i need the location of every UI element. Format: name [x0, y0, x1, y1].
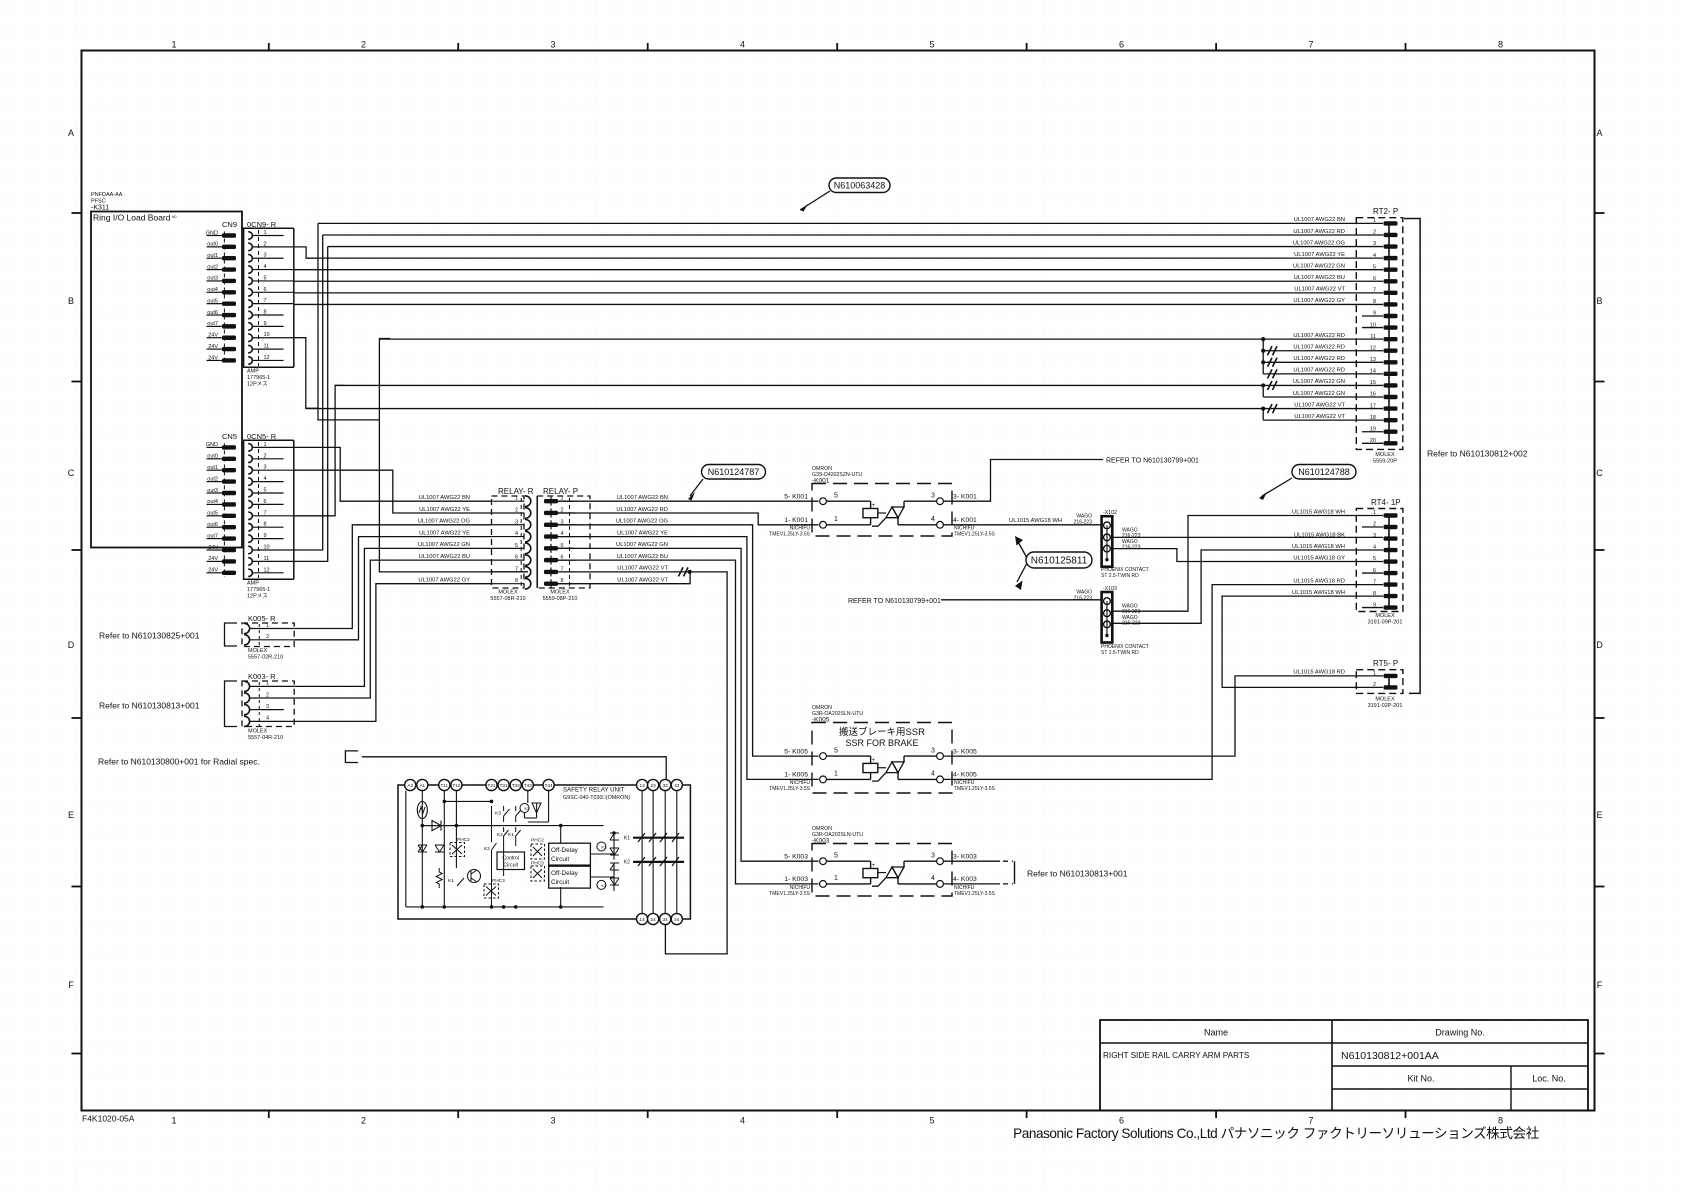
- K003-R pin 4 stub: [250, 720, 295, 722]
- CN9 pin 9 lead: [207, 325, 223, 327]
- svg-text:REFER TO N610130799+001: REFER TO N610130799+001: [1106, 458, 1199, 465]
- safety relay T11 column: [443, 791, 445, 907]
- svg-text:UL1015 AWG18 RD: UL1015 AWG18 RD: [1293, 578, 1345, 584]
- svg-text:TMEV1.25LY-3.5S: TMEV1.25LY-3.5S: [954, 786, 996, 792]
- safety relay off-delay circuit box 1: [549, 843, 591, 865]
- RT4-1P pin 4 male contact: [1384, 548, 1398, 552]
- svg-text:33: 33: [663, 783, 669, 788]
- svg-text:T44: T44: [545, 783, 553, 788]
- wire RT4-1P pin8 to RT5-P pin2: [1222, 596, 1383, 687]
- svg-text:2: 2: [361, 40, 366, 50]
- connector K005-R dashed box: [242, 623, 294, 647]
- CN9 pin 6 male contact: [222, 290, 236, 294]
- svg-text:34: 34: [663, 917, 669, 922]
- svg-text:Off-Delay: Off-Delay: [551, 847, 579, 854]
- RT2-P pin 20 stub: [1362, 442, 1383, 444]
- svg-text:RT4- 1P: RT4- 1P: [1371, 498, 1401, 507]
- svg-text:TMEV1.25LY-3.5S: TMEV1.25LY-3.5S: [769, 891, 811, 897]
- svg-text:Name: Name: [1204, 1028, 1228, 1038]
- RT4-1P pin 7 male contact: [1384, 582, 1398, 586]
- safety relay terminal T12: [451, 779, 462, 790]
- svg-text:6: 6: [1119, 1116, 1124, 1126]
- svg-text:5: 5: [929, 40, 934, 50]
- RT2-P pin 2 male contact: [1384, 233, 1398, 237]
- board K311 Ring I/O Load Board box: [91, 212, 242, 548]
- RT2-P pin 7 male contact: [1384, 291, 1398, 295]
- svg-text:Off-Delay: Off-Delay: [551, 870, 579, 877]
- svg-text:PHC2: PHC2: [531, 838, 544, 844]
- svg-text:B: B: [1596, 296, 1602, 306]
- svg-text:UL1007 AWG22 BN: UL1007 AWG22 BN: [419, 495, 470, 501]
- CN9 pin 4 lead: [207, 269, 223, 271]
- CN9 pin 1 lead: [207, 235, 223, 237]
- safety relay opto PHC2b box: [531, 844, 545, 859]
- svg-text:8: 8: [1498, 40, 1503, 50]
- svg-text:T11: T11: [441, 783, 449, 788]
- svg-text:2: 2: [266, 692, 269, 698]
- wire refer note to WAGO X103 pin1: [941, 599, 1102, 601]
- wire RELAY-P pin1 to K001 pin5: [558, 500, 819, 502]
- 0CN9-R pin 11 stub: [252, 348, 283, 350]
- svg-text:Refer to N610130812+002: Refer to N610130812+002: [1427, 449, 1528, 459]
- wire RELAY-P pin2 to K001 pin1: [558, 513, 819, 525]
- svg-text:RELAY- P: RELAY- P: [543, 487, 578, 496]
- column tick bottom 5: [1026, 1111, 1028, 1119]
- svg-text:AMP: AMP: [247, 581, 259, 587]
- K003-R pin 1 stub: [250, 685, 295, 687]
- svg-text:UL1007 AWG22 RD: UL1007 AWG22 RD: [1293, 229, 1345, 235]
- callout N610125811 arrow down: [1017, 563, 1027, 582]
- svg-text:UL1007 AWG22 RD: UL1007 AWG22 RD: [616, 507, 668, 513]
- svg-text:TMEV1.25LY-3.5S: TMEV1.25LY-3.5S: [769, 532, 811, 538]
- RT2-P pin 20 male contact: [1384, 441, 1398, 445]
- svg-text:Refer to N610130813+001: Refer to N610130813+001: [1027, 869, 1128, 879]
- svg-text:4: 4: [931, 771, 935, 778]
- svg-text:UL1007 AWG22 RD: UL1007 AWG22 RD: [1293, 368, 1345, 374]
- safety relay opto PHC3b box: [531, 866, 545, 881]
- row tick left 5: [72, 886, 82, 888]
- wire riser 0CN5-R pin7 to RT2-P pin15 line: [294, 385, 345, 515]
- CN9 pin 5 lead: [207, 280, 223, 282]
- CN9 pin 8 lead: [207, 314, 223, 316]
- column tick bottom 6: [1215, 1111, 1217, 1119]
- svg-text:UL1007 AWG22 OG: UL1007 AWG22 OG: [1293, 240, 1346, 246]
- svg-text:177965-1: 177965-1: [247, 375, 270, 381]
- svg-text:1: 1: [834, 875, 838, 882]
- CN5 pin 1 lead: [207, 446, 223, 448]
- svg-text:UL1007 AWG22 OG: UL1007 AWG22 OG: [616, 519, 669, 525]
- CN5 pin 6 male contact: [222, 502, 236, 506]
- svg-text:5: 5: [834, 853, 838, 860]
- wire RELAY-P pin4 to K005 pin1: [558, 537, 819, 780]
- CN9 pin 10 lead: [207, 337, 223, 339]
- RT2-P pin 17 male contact: [1384, 406, 1398, 410]
- K003-R pin 2 female contact: [244, 693, 250, 703]
- 0CN9-R pin 11 female contact: [248, 345, 252, 353]
- RELAY-P pin 8 male contact: [544, 582, 558, 586]
- svg-text:5557-04R-210: 5557-04R-210: [248, 735, 283, 741]
- wire RELAY-R pin4 to K005-R pin2: [294, 537, 491, 640]
- RELAY-P pin 1 male contact: [544, 499, 558, 503]
- 0CN5-R pin 6 stub: [252, 503, 283, 505]
- 0CN5-R pin 2 female contact: [248, 455, 252, 463]
- connector RELAY-R mating dashed line: [520, 498, 522, 586]
- svg-text:Circuit: Circuit: [503, 863, 518, 869]
- CN9 pin 3 lead: [207, 257, 223, 259]
- RT4-1P pin 2 male contact: [1384, 525, 1398, 529]
- svg-text:5557-02R-210: 5557-02R-210: [248, 655, 283, 661]
- 0CN5-R pin 3 female contact: [248, 466, 252, 474]
- CN5 pin 1 male contact: [222, 445, 236, 449]
- 0CN9-R pin 8 female contact: [248, 311, 252, 319]
- wire to RT2-P pin 16 (UL1007 AWG22 GN): [1263, 396, 1383, 398]
- 0CN9-R pin 4 female contact: [248, 266, 252, 274]
- safety relay bottom rail dots: [421, 905, 425, 909]
- RELAY-P pin 5 wire stub: [558, 547, 575, 549]
- svg-text:UL1007 AWG22 RD: UL1007 AWG22 RD: [1293, 333, 1345, 339]
- connector K003-R mating dashed line: [258, 682, 260, 726]
- SSR K001 terminal 4: [937, 521, 944, 528]
- K003-R pin 1 female contact: [244, 681, 250, 691]
- safety relay contact column 33: [664, 791, 666, 914]
- RELAY-R pin 4 female contact: [525, 531, 531, 542]
- svg-text:5- K001: 5- K001: [784, 493, 808, 500]
- svg-text:1: 1: [834, 516, 838, 523]
- RELAY-R pin 1 female contact: [525, 496, 531, 507]
- RT4-1P pin 8 male contact: [1384, 594, 1398, 598]
- svg-text:1: 1: [171, 40, 176, 50]
- wire K001 pin3 to refer note: [943, 460, 1103, 502]
- svg-text:4: 4: [515, 531, 518, 537]
- K005-R pin2 stub: [250, 639, 295, 641]
- RT2-P pin 1 male contact: [1384, 221, 1398, 225]
- svg-text:Refer to N610130813+001: Refer to N610130813+001: [99, 701, 200, 711]
- safety relay off-delay circuit box 2: [549, 866, 591, 888]
- RT4-1P pin 3 male contact: [1384, 536, 1398, 540]
- CN5 pin 10 male contact: [222, 548, 236, 552]
- safety relay K1 feed: [590, 853, 614, 855]
- svg-text:搬送ブレーキ用SSR: 搬送ブレーキ用SSR: [839, 726, 925, 738]
- svg-text:5: 5: [834, 747, 838, 754]
- svg-text:RELAY- R: RELAY- R: [498, 487, 534, 496]
- safety relay TVS pair 2: [435, 845, 444, 852]
- 0CN5-R pin 1 female contact: [248, 444, 252, 452]
- wire WAGO X103 pin2 to RT4-1P pin1: [1112, 516, 1383, 612]
- RELAY-P pin 2 wire stub: [558, 512, 575, 514]
- svg-text:5559-08P-210: 5559-08P-210: [543, 596, 578, 602]
- RT2-P pin 9 stub: [1362, 315, 1383, 317]
- 0CN9-R pin 12 stub: [252, 359, 283, 361]
- junction bus GN pins 15-16: [1262, 385, 1264, 397]
- svg-text:TMEV1.25LY-3.5S: TMEV1.25LY-3.5S: [769, 786, 811, 792]
- svg-text:K005- R: K005- R: [248, 614, 276, 623]
- CN9 pin 2 male contact: [222, 245, 236, 249]
- crossover slash pin15: [1268, 381, 1278, 390]
- RELAY-P pin 8 wire stub: [558, 583, 575, 585]
- RELAY-P pin 7 wire stub: [558, 571, 575, 573]
- svg-text:Kit No.: Kit No.: [1407, 1074, 1434, 1084]
- SSR K005 terminal 4: [937, 776, 944, 783]
- K003-R pin 4 female contact: [244, 716, 250, 726]
- title block drawing-number row line: [1332, 1065, 1588, 1067]
- SSR K001 terminal 5: [820, 498, 827, 505]
- svg-text:A: A: [1596, 128, 1602, 138]
- 0CN9-R pin 3 stub: [252, 257, 283, 259]
- safety relay terminal T44: [543, 779, 554, 790]
- svg-text:5- K003: 5- K003: [784, 853, 808, 860]
- CN5 pin 2 lead: [207, 458, 223, 460]
- junction dot pin12: [1261, 349, 1265, 353]
- RELAY-R pin 6 female contact: [525, 555, 531, 566]
- svg-text:5: 5: [515, 543, 518, 549]
- wire 0CN5-R pin1 to RELAY-R pin1: [294, 447, 492, 501]
- svg-text:UL1007 AWG22 VT: UL1007 AWG22 VT: [617, 578, 668, 584]
- svg-text:3- K003: 3- K003: [953, 853, 977, 860]
- svg-text:MOLEX: MOLEX: [550, 590, 570, 596]
- safety relay diode pair K1: [610, 833, 619, 855]
- svg-text:2: 2: [515, 507, 518, 513]
- column tick bottom 4: [836, 1111, 838, 1119]
- wire RELAY-P pin5 to K003 pin5: [558, 548, 819, 861]
- svg-text:CN5: CN5: [222, 432, 237, 441]
- wire RELAY-R pin3 to K005-R pin1: [294, 525, 491, 629]
- column tick top 7: [1405, 43, 1407, 51]
- svg-text:1- K001: 1- K001: [784, 517, 808, 524]
- svg-text:MOLEX: MOLEX: [248, 729, 268, 735]
- svg-text:UL1007 AWG22 VT: UL1007 AWG22 VT: [1294, 402, 1345, 408]
- CN5 pin 2 male contact: [222, 457, 236, 461]
- title block vertical divider: [1331, 1020, 1333, 1111]
- svg-text:UL1007 AWG22 OG: UL1007 AWG22 OG: [418, 519, 471, 525]
- svg-text:TMEV1.25LY-3.5S: TMEV1.25LY-3.5S: [954, 532, 996, 538]
- CN5 pin 7 male contact: [222, 514, 236, 518]
- svg-text:E: E: [1596, 810, 1602, 820]
- 0CN9-R pin 10 stub: [252, 337, 293, 339]
- CN5 pin 7 lead: [207, 515, 223, 517]
- svg-text:K1: K1: [508, 832, 514, 838]
- safety relay opto PHC2 box: [450, 843, 465, 857]
- svg-text:-K311: -K311: [91, 205, 109, 212]
- connector RELAY-P mating dashed line: [569, 498, 571, 586]
- column tick top 3: [647, 43, 649, 51]
- 0CN5-R pin 8 female contact: [248, 523, 252, 531]
- svg-text:K3: K3: [525, 806, 531, 811]
- safety relay control circuit box: [497, 852, 525, 870]
- wire riser line1 to bus joint: [318, 223, 379, 420]
- RELAY-R pin 1 wire stub: [492, 500, 525, 502]
- RELAY-R pin 3 wire stub: [492, 524, 525, 526]
- CN5 pin 3 male contact: [222, 468, 236, 472]
- wire RELAY-R pin6 to K003-R pin2: [294, 560, 491, 698]
- svg-text:T33: T33: [512, 783, 520, 788]
- svg-text:MOLEX: MOLEX: [1375, 697, 1395, 703]
- wire WAGO X102 pin3 to RT4-1P pin5: [1112, 549, 1383, 562]
- 0CN5-R pin 11 stub: [252, 560, 293, 562]
- svg-text:UL1007 AWG22 BU: UL1007 AWG22 BU: [617, 554, 668, 560]
- svg-text:UL1015 AWG18 WH: UL1015 AWG18 WH: [1292, 590, 1345, 596]
- CN9 pin 11 male contact: [222, 347, 236, 351]
- 0CN5-R pin 12 stub: [252, 572, 283, 574]
- svg-text:PHC3: PHC3: [492, 878, 505, 884]
- RT2-P pin 8 male contact: [1384, 302, 1398, 306]
- safety relay K2 feed: [590, 876, 614, 878]
- CN5 pin 6 lead: [207, 503, 223, 505]
- RELAY-R pin 8 wire stub: [492, 583, 525, 585]
- wire to RT2-P pin 18 (UL1007 AWG22 VT): [1263, 419, 1383, 421]
- safety relay K1 coil: [597, 842, 606, 851]
- 0CN5-R pin 7 stub: [252, 515, 293, 517]
- 0CN5-R pin 7 female contact: [248, 512, 252, 520]
- wire to RT2-P pin 3 (UL1007 AWG22 OG): [328, 246, 1383, 248]
- safety relay terminal T43: [522, 779, 533, 790]
- 0CN5-R pin 6 female contact: [248, 501, 252, 509]
- connector RT2-P pin column line: [1388, 223, 1390, 443]
- RELAY-P pin 5 male contact: [544, 546, 558, 550]
- wire radial spec to safety relay terminal 33: [362, 757, 666, 780]
- 0CN9-R pin 12 female contact: [248, 357, 252, 365]
- RELAY-R pin 7 female contact: [525, 567, 531, 578]
- wire to RT2-P pin 2 (UL1007 AWG22 RD): [323, 234, 1383, 236]
- connector K003-R dashed box: [242, 681, 294, 727]
- RELAY-P pin 3 wire stub: [558, 524, 575, 526]
- wire RELAY-P pin6 to K003 pin1: [558, 560, 819, 884]
- safety relay terminal T31: [498, 779, 509, 790]
- svg-text:5: 5: [929, 1116, 934, 1126]
- svg-text:UL1007 AWG22 RD: UL1007 AWG22 RD: [1293, 345, 1345, 351]
- CN5 pin 4 lead: [207, 481, 223, 483]
- row tick left 2: [72, 381, 82, 383]
- RT2-P pin 6 male contact: [1384, 279, 1398, 283]
- callout N610125811 arrow up: [1017, 540, 1027, 558]
- connector 0CN9-R mating dashed line: [258, 230, 260, 366]
- callout N610063428 arrow: [800, 191, 830, 210]
- wire K003 pin4 to bracket: [943, 883, 1000, 885]
- RT2-P pin 3 male contact: [1384, 244, 1398, 248]
- crossover slash pin12: [1268, 346, 1278, 355]
- svg-text:K3: K3: [495, 811, 501, 817]
- svg-text:7: 7: [1308, 40, 1313, 50]
- wire riser 0CN9-R pin10 to RT2-P pin17 line: [294, 338, 318, 409]
- RT2-P pin 10 stub: [1362, 327, 1383, 329]
- K005-R pin1 stub: [250, 628, 295, 630]
- RELAY-R pin 8 female contact: [525, 578, 531, 589]
- safety relay transistor: [468, 870, 481, 883]
- K005-R pin 1 female contact: [244, 623, 250, 633]
- wire to RT2-P pin 8 (UL1007 AWG22 GY): [294, 303, 1383, 305]
- svg-text:43: 43: [674, 783, 680, 788]
- CN9 mating dashed line: [223, 232, 225, 365]
- CN9 pin 12 lead: [207, 359, 223, 361]
- CN5 pin 9 male contact: [222, 536, 236, 540]
- svg-text:4: 4: [931, 875, 935, 882]
- svg-text:Loc. No.: Loc. No.: [1532, 1074, 1566, 1084]
- RT2-P pin 19 stub: [1362, 431, 1383, 433]
- CN5 pin 10 lead: [207, 549, 223, 551]
- RT4-1P pin 2 stub: [1362, 526, 1383, 528]
- CN9 pin 9 male contact: [222, 324, 236, 328]
- svg-text:C: C: [1596, 468, 1603, 478]
- svg-text:K2: K2: [624, 860, 630, 866]
- svg-text:3191-02P-201: 3191-02P-201: [1368, 703, 1403, 709]
- CN5 pin 3 lead: [207, 469, 223, 471]
- svg-text:+: +: [872, 863, 876, 869]
- safety relay contact column 23: [652, 791, 654, 914]
- safety relay terminal 23: [648, 779, 659, 790]
- wire WAGO X102 pin2 to RT4-1P pin3: [1112, 536, 1383, 538]
- svg-text:3: 3: [931, 493, 935, 500]
- svg-text:1: 1: [515, 496, 518, 502]
- column tick bottom 7: [1405, 1111, 1407, 1119]
- svg-text:N610063428: N610063428: [834, 180, 886, 190]
- connector RT4-1P pin column line: [1388, 516, 1390, 608]
- 0CN5-R pin 5 female contact: [248, 489, 252, 497]
- wire K005 pin4 to RT4-1P pin7: [943, 585, 1383, 780]
- 0CN9-R pin 6 female contact: [248, 289, 252, 297]
- 0CN5-R pin 11 female contact: [248, 558, 252, 566]
- svg-text:UL1007 AWG22 BN: UL1007 AWG22 BN: [617, 495, 668, 501]
- column tick top 2: [457, 43, 459, 51]
- svg-text:UL1015 AWG18 WH: UL1015 AWG18 WH: [1009, 518, 1062, 524]
- junction bus RD pins 11-14: [1262, 339, 1264, 374]
- connector 0CN9-R box: [244, 228, 294, 367]
- svg-text:5557-08R-210: 5557-08R-210: [490, 596, 525, 602]
- svg-text:ST 2.5-TWIN RD: ST 2.5-TWIN RD: [1101, 573, 1139, 579]
- 0CN5-R pin 8 stub: [252, 526, 283, 528]
- title block outer box: [1100, 1020, 1588, 1111]
- CN5 pin 11 male contact: [222, 559, 236, 563]
- svg-text:5: 5: [834, 493, 838, 500]
- svg-text:UL1015 AWG18 RD: UL1015 AWG18 RD: [1293, 670, 1345, 676]
- SSR K003 terminal 4: [937, 881, 944, 888]
- connector RT2-P dashed box: [1356, 218, 1403, 450]
- CN9 pin 12 male contact: [222, 358, 236, 362]
- svg-text:B: B: [68, 296, 74, 306]
- 0CN9-R pin 9 female contact: [248, 323, 252, 331]
- RT4-1P pin 6 male contact: [1384, 571, 1398, 575]
- CN9 pin 7 male contact: [222, 301, 236, 305]
- RELAY-P pin 4 male contact: [544, 534, 558, 538]
- RT4-1P pin 9 male contact: [1384, 605, 1398, 609]
- wire to RT2-P pin 14 (UL1007 AWG22 RD): [1263, 373, 1383, 375]
- svg-text:SAFETY RELAY UNIT: SAFETY RELAY UNIT: [563, 787, 625, 794]
- 0CN9-R pin 8 stub: [252, 314, 283, 316]
- CN5 pin 8 lead: [207, 526, 223, 528]
- RT4-1P pin 5 male contact: [1384, 559, 1398, 563]
- RELAY-P pin 6 wire stub: [558, 559, 575, 561]
- svg-text:UL1007 AWG22 GY: UL1007 AWG22 GY: [418, 578, 470, 584]
- RELAY-R pin 5 female contact: [525, 543, 531, 554]
- svg-text:RIGHT SIDE RAIL CARRY ARM PART: RIGHT SIDE RAIL CARRY ARM PARTS: [1103, 1051, 1250, 1060]
- wire 0CN5-R pin3 to RELAY-R pin2: [294, 470, 492, 513]
- svg-text:13: 13: [640, 783, 646, 788]
- svg-text:UL1007 AWG22 BU: UL1007 AWG22 BU: [1294, 275, 1345, 281]
- svg-text:44: 44: [674, 917, 680, 922]
- RELAY-P pin 2 male contact: [544, 511, 558, 515]
- safety relay terminal 14: [637, 913, 648, 924]
- safety relay K3 coil: [520, 804, 529, 813]
- safety relay contact column 13: [641, 791, 643, 914]
- svg-text:1: 1: [266, 681, 269, 687]
- column tick top 6: [1215, 43, 1217, 51]
- RT2-P pin 13 male contact: [1384, 360, 1398, 364]
- safety relay internal top rail: [422, 825, 560, 827]
- svg-text:UL1007 AWG22 YE: UL1007 AWG22 YE: [419, 530, 470, 536]
- wire RELAY-P pin3 to K005 pin5: [558, 525, 819, 756]
- wire RELAY-P pin7 VT to safety relay terminal 34: [558, 572, 728, 954]
- svg-text:T12: T12: [452, 783, 460, 788]
- junction dot pin15: [1261, 383, 1265, 387]
- wire RELAY-R pin7 left stub: [492, 571, 529, 573]
